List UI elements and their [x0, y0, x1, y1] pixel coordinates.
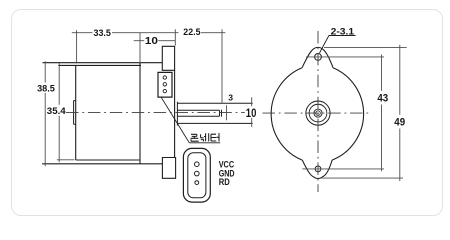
- svg-text:49: 49: [394, 117, 405, 129]
- connector housing (top box): [162, 46, 174, 70]
- boss circle 1: [306, 101, 330, 125]
- centerline left view: [66, 112, 245, 114]
- dim 22.5: [201, 29, 225, 103]
- svg-text:43: 43: [377, 92, 388, 104]
- gearbox foot: [162, 158, 175, 179]
- boss top center tick: [315, 100, 321, 102]
- label konnekta (Hangul strokes): [191, 133, 219, 142]
- gearbox block: [42, 63, 175, 164]
- dim 10 (shaft len): [251, 97, 253, 127]
- dim 43: [302, 55, 384, 172]
- dim 33.5: [72, 29, 179, 63]
- hidden boss line A: [177, 102, 252, 104]
- output bearing band: [176, 102, 178, 126]
- boss circle 4: [316, 111, 321, 116]
- connector detail inner shell: [188, 153, 206, 198]
- horizontal centerline right view: [263, 112, 370, 114]
- svg-text:33.5: 33.5: [94, 28, 111, 38]
- motor can body: [58, 63, 141, 164]
- shaft: [177, 110, 221, 117]
- vertical centerline right view: [317, 31, 319, 192]
- connector 3-pin block: [158, 72, 172, 97]
- boss circle 2: [309, 104, 327, 122]
- connector detail outer shell: [183, 148, 210, 202]
- left bearing boss: [74, 101, 76, 125]
- svg-text:22.5: 22.5: [183, 27, 200, 37]
- right view body outline: [271, 47, 363, 178]
- pin GND: [195, 171, 200, 176]
- bottom mounting hole: [315, 166, 321, 172]
- svg-text:RD: RD: [219, 177, 230, 188]
- svg-text:35.4: 35.4: [47, 106, 67, 117]
- pin VCC: [195, 162, 200, 167]
- boss circle 3: [314, 109, 322, 117]
- dim 10 (top): [134, 33, 176, 63]
- leader konnekta: [161, 97, 220, 143]
- dim 3 (shaft dia): [226, 105, 228, 120]
- dim 49: [321, 45, 407, 181]
- svg-text:10: 10: [246, 106, 257, 120]
- hidden boss line B: [177, 122, 252, 124]
- pin hole 2: [163, 83, 166, 86]
- svg-text:10: 10: [145, 36, 159, 47]
- dim 35.4: [57, 63, 75, 162]
- pin RD: [195, 181, 199, 185]
- pin hole 1: [163, 76, 166, 79]
- dim 38.5: [44, 61, 46, 166]
- svg-text:3: 3: [228, 93, 233, 103]
- pin hole 3: [163, 89, 166, 92]
- top mounting hole: [315, 54, 322, 61]
- svg-text:38.5: 38.5: [37, 83, 55, 94]
